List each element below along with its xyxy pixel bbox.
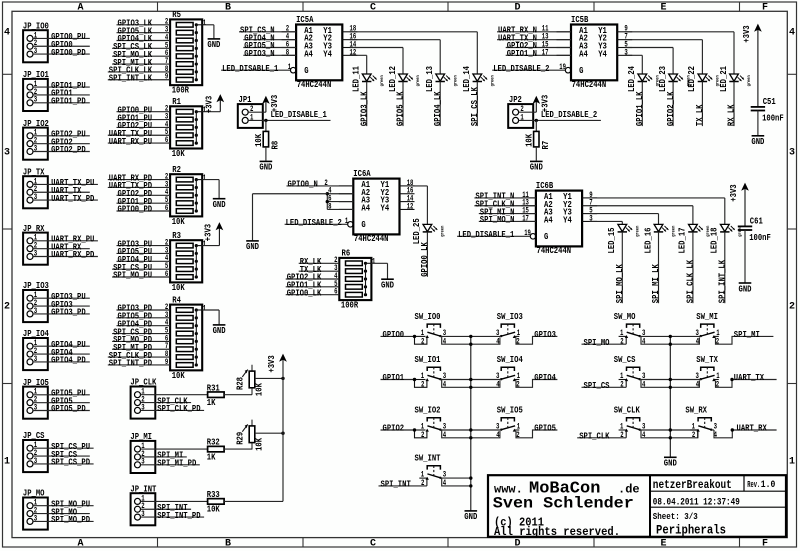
svg-text:LED_DISABLE_2: LED_DISABLE_2: [541, 110, 597, 120]
ground at C61: [739, 283, 752, 294]
wire R3 pin 4: [117, 260, 171, 262]
junction node: [413, 335, 416, 338]
resistor network R3 10K: [170, 231, 206, 293]
wire feed to LED_21: [733, 32, 735, 74]
svg-text:GND: GND: [739, 284, 752, 294]
wire output UART_TX: [715, 379, 719, 381]
+3V3 supply at rail: [267, 354, 286, 372]
switch SW_IO4: [496, 355, 523, 390]
svg-text:SW_IO3: SW_IO3: [497, 312, 523, 322]
svg-text:E: E: [660, 2, 666, 13]
svg-text:GND: GND: [381, 281, 394, 291]
wire JP_IO4 pin 3: [33, 361, 90, 363]
svg-text:10K: 10K: [254, 133, 264, 146]
svg-text:GPIO5_PD: GPIO5_PD: [51, 404, 86, 414]
wire JP_IO5 pin 3: [33, 410, 90, 412]
wire switch pins 3 4 to column: [440, 477, 470, 479]
connector JP_CLK: [130, 378, 156, 419]
svg-text:SW_TX: SW_TX: [696, 355, 718, 365]
wire R4 pin 9: [108, 364, 170, 366]
svg-text:LED_DISABLE_2: LED_DISABLE_2: [286, 218, 342, 228]
svg-text:R28: R28: [235, 377, 245, 390]
buffer IC IC6B 74HC244N: [521, 181, 597, 256]
wire IC5B input UART_RX_N: [497, 31, 571, 33]
wire R6 pin 3: [299, 270, 340, 272]
buffer IC IC5A 74HC244N: [282, 15, 358, 90]
wire cathode of LED_14: [476, 82, 478, 127]
svg-text:9: 9: [165, 73, 169, 82]
svg-text:green: green: [672, 226, 677, 237]
switch SW_MO: [614, 312, 646, 347]
svg-text:SPI_CLK_LK: SPI_CLK_LK: [686, 259, 696, 303]
wire R4 pin 5: [112, 333, 170, 335]
resistor R7 10K: [525, 120, 551, 160]
wire JP_RX pin 1: [33, 240, 98, 242]
svg-text:SPI_MI: SPI_MI: [734, 330, 760, 340]
svg-text:6: 6: [165, 136, 169, 145]
svg-text:GPIO5_LK: GPIO5_LK: [396, 91, 406, 126]
wire IC6B input SPI_MI_N: [479, 213, 536, 215]
svg-text:GPIO0_LK: GPIO0_LK: [287, 288, 322, 298]
junction node: [730, 378, 733, 381]
svg-text:2: 2: [421, 479, 425, 488]
wire IC5A input GPIO4_N: [243, 39, 296, 41]
svg-text:E: E: [660, 539, 666, 550]
ground at R5: [207, 39, 220, 50]
wire JP_IO2 pin 3: [33, 151, 90, 153]
svg-text:19: 19: [559, 63, 566, 72]
wire switch pins 3 4 from column: [670, 379, 700, 381]
LED LED_15 green: [607, 224, 640, 253]
LED LED_18 green: [710, 224, 743, 253]
svg-text:LED_DISABLE_1: LED_DISABLE_1: [222, 64, 279, 74]
LED LED_25 green: [412, 218, 445, 244]
wire JP_IO3 pin 3: [33, 313, 90, 315]
wire JP_CS pin 2: [33, 455, 90, 457]
wire R2 pin 3: [108, 186, 170, 188]
svg-text:GPIO4_LK: GPIO4_LK: [433, 91, 443, 126]
wire cathode of LED_24: [641, 82, 643, 127]
svg-text:10K: 10K: [254, 437, 264, 450]
junction node: [413, 428, 416, 431]
wire R4 pin 8: [108, 356, 170, 358]
wire JP_IO3 pin 2: [33, 305, 90, 307]
+3V3 supply at R3: [203, 223, 222, 246]
svg-text:green: green: [636, 226, 641, 237]
svg-text:LED_DISABLE_2: LED_DISABLE_2: [493, 64, 549, 74]
resistor network R5 100R: [170, 10, 206, 95]
wire R2 pin 5: [117, 202, 171, 204]
svg-text:2: 2: [516, 431, 520, 440]
svg-text:4: 4: [443, 431, 447, 440]
wire R5 pin 1 to ground: [202, 24, 214, 26]
svg-text:1: 1: [4, 457, 10, 468]
svg-text:SW_MI: SW_MI: [696, 312, 718, 322]
svg-text:green: green: [656, 75, 661, 86]
wire switch common column left group: [469, 335, 472, 511]
svg-text:SPI_INT_LK: SPI_INT_LK: [718, 259, 728, 303]
wire input GPIO2: [381, 429, 415, 431]
wire IC5B input UART_TX_N: [497, 39, 571, 41]
svg-text:4: 4: [443, 337, 447, 346]
+3V3 supply at JP2: [533, 95, 550, 112]
junction node: [731, 428, 734, 431]
wire R1 pin 2: [117, 111, 171, 113]
switch SW_CS: [614, 355, 646, 390]
svg-text:green: green: [380, 75, 385, 86]
connector JP_MI: [130, 432, 155, 473]
svg-text:2: 2: [620, 337, 624, 346]
+3V3 supply at C51: [742, 25, 761, 107]
svg-text:D: D: [514, 539, 520, 550]
wire enable LED_DISABLE_1: [457, 235, 530, 237]
svg-text:SPI_CS: SPI_CS: [584, 381, 610, 391]
svg-text:SPI_MI_LK: SPI_MI_LK: [651, 264, 661, 303]
svg-text:2: 2: [789, 302, 795, 313]
svg-text:UART_RX_PU: UART_RX_PU: [109, 137, 152, 147]
wire C51 to ground: [757, 111, 759, 136]
wire R2 pin 2: [108, 179, 170, 181]
svg-text:GPIO2_PD: GPIO2_PD: [51, 145, 86, 155]
svg-text:10K: 10K: [525, 133, 535, 146]
wire JP_CLK pin 3: [141, 409, 205, 411]
svg-text:GPIO2: GPIO2: [383, 424, 405, 434]
wire IC6B input SPI_CLK_N: [474, 205, 536, 207]
svg-text:2: 2: [421, 431, 425, 440]
LED LED_22 green: [687, 66, 720, 92]
wire JP_RX pin 3: [33, 256, 98, 258]
connector JP_IO5: [23, 378, 49, 419]
svg-text:R32: R32: [207, 438, 220, 448]
wire JP_TX pin 3: [33, 199, 98, 201]
wire R4 pin 7: [112, 348, 170, 350]
wire R5 pin 8: [108, 71, 170, 73]
wire output GPIO5: [515, 429, 519, 431]
svg-text:10K: 10K: [207, 505, 220, 515]
wire IC5A Y1 to LED_14: [350, 31, 478, 33]
wire JP_INT pin 1 to R33: [141, 500, 208, 502]
svg-text:GPIO0_N: GPIO0_N: [288, 180, 318, 190]
svg-text:GPIO0: GPIO0: [383, 330, 405, 340]
wire IC5B Y2 to LED_22: [625, 39, 703, 41]
LED LED_12 green: [388, 66, 421, 92]
svg-text:SW_IO4: SW_IO4: [497, 355, 523, 365]
junction node: [264, 119, 267, 122]
switch SW_CLK: [614, 405, 646, 440]
wire JP_CS pin 1: [33, 447, 94, 449]
LED LED_14 green: [462, 66, 495, 92]
svg-text:SPI_INT_PD: SPI_INT_PD: [157, 511, 201, 521]
svg-text:SPI_MO_N: SPI_MO_N: [480, 215, 515, 225]
connector JP_IO4: [23, 329, 49, 370]
wire JP_IO1 pin 2: [33, 94, 90, 96]
connector JP_IO0: [23, 21, 49, 62]
wire R1 pin 1 to +3V3: [202, 111, 220, 113]
wire switch pins 3 4 from column: [471, 335, 501, 337]
wire JP_IO5 pin 2: [33, 402, 90, 404]
svg-text:GPIO0_PD: GPIO0_PD: [118, 205, 153, 215]
svg-text:+3V3: +3V3: [742, 25, 752, 42]
svg-text:74HC244N: 74HC244N: [354, 234, 389, 244]
svg-text:4: 4: [642, 431, 646, 440]
resistor R33 10K: [207, 490, 224, 515]
svg-text:A4: A4: [304, 49, 313, 59]
svg-text:GPIO4_PD: GPIO4_PD: [51, 356, 86, 366]
svg-text:SPI_MO_PD: SPI_MO_PD: [51, 515, 90, 525]
svg-text:GPIO5: GPIO5: [534, 424, 556, 434]
wire JP2 pin 2 to +3V3: [519, 111, 537, 113]
wire R4 pin 4: [117, 325, 171, 327]
svg-text:UART_TX: UART_TX: [734, 373, 765, 383]
svg-text:10K: 10K: [172, 149, 185, 159]
wire switch pins 3 4 to column: [640, 429, 671, 431]
svg-text:SPI_CS_LK: SPI_CS_LK: [470, 87, 480, 126]
wire feed to LED_23: [672, 48, 674, 75]
wire feed to LED_12: [402, 48, 404, 75]
svg-text:SW_INT: SW_INT: [415, 454, 441, 464]
svg-text:Rev.: Rev.: [747, 480, 760, 490]
svg-text:G: G: [361, 220, 365, 230]
ground at switch column right: [664, 457, 677, 468]
svg-text:1: 1: [203, 174, 207, 183]
capacitor C61 100nF: [738, 216, 771, 243]
trimmer R29 10K: [235, 420, 264, 451]
wire cathode of LED_23: [672, 82, 674, 127]
svg-text:C61: C61: [750, 216, 763, 226]
svg-text:+3V3: +3V3: [204, 96, 214, 113]
resistor network R1 10K: [170, 97, 206, 159]
svg-text:4: 4: [696, 380, 700, 389]
wire cathode of LED_18: [724, 232, 726, 303]
wire enable LED_DISABLE_2: [285, 223, 348, 225]
svg-text:1: 1: [250, 113, 254, 122]
svg-text:GND: GND: [464, 512, 477, 522]
wire R3 pin 3: [117, 252, 171, 254]
svg-text:LED_13: LED_13: [425, 66, 435, 92]
wire IC5B Y3 to LED_23: [625, 47, 673, 49]
wire R1 pin 4: [117, 126, 171, 128]
switch SW_IO1: [415, 355, 447, 390]
wire wiper R29 to rail: [255, 432, 283, 434]
LED LED_13 green: [425, 66, 458, 92]
svg-text:A: A: [77, 2, 83, 13]
connector JP_INT: [130, 484, 156, 525]
wire input GPIO0: [381, 335, 415, 337]
ground at R7: [530, 161, 543, 172]
svg-text:SPI_MO_LK: SPI_MO_LK: [615, 264, 625, 303]
svg-text:UART_RX_PD: UART_RX_PD: [51, 250, 95, 260]
svg-text:SW_IO1: SW_IO1: [415, 355, 441, 365]
wire R4 pin 6: [112, 340, 170, 342]
wire JP_IO2 pin 2: [33, 143, 90, 145]
wire input SPI_CLK: [577, 437, 626, 439]
wire JP_IO4 pin 1: [33, 345, 90, 347]
svg-text:GPIO3_LK: GPIO3_LK: [359, 91, 369, 126]
wire R5 pin 6: [112, 55, 170, 57]
svg-text:A: A: [77, 539, 83, 550]
wire IC5A Y2 to LED_13: [350, 39, 440, 41]
svg-text:SW_IO0: SW_IO0: [415, 312, 441, 322]
wire input GPIO1: [381, 379, 415, 381]
wire feed to LED_25: [426, 186, 428, 225]
wire R5 pin 5: [112, 47, 170, 49]
svg-text:Y4: Y4: [598, 49, 607, 59]
wire JP2 pin 1 LED_DISABLE_2: [519, 119, 601, 121]
wire R6 pin 2: [299, 262, 340, 264]
svg-text:17: 17: [542, 48, 549, 57]
junction node: [413, 378, 416, 381]
wire R32 to R29: [224, 448, 252, 450]
svg-text:green: green: [716, 75, 721, 86]
svg-text:74HC244N: 74HC244N: [297, 80, 332, 90]
svg-text:2: 2: [692, 431, 696, 440]
wire switch pins 3 4 from column: [471, 379, 501, 381]
wire JP_IO1 pin 1: [33, 86, 90, 88]
wire enable LED_DISABLE_1: [221, 69, 290, 71]
wire R5 pin 9: [108, 79, 170, 81]
svg-text:100R: 100R: [172, 86, 190, 96]
svg-text:1: 1: [345, 217, 349, 226]
svg-text:Sven Schlender: Sven Schlender: [493, 495, 634, 513]
resistor network R6 100R: [339, 249, 375, 311]
resistor R32 1K: [207, 438, 224, 463]
wire feed to LED_24: [641, 55, 643, 74]
wire JP1 pin 2 to +3V3: [248, 111, 266, 113]
svg-text:R7: R7: [541, 141, 551, 150]
junction node: [281, 432, 284, 435]
svg-text:GPIO3: GPIO3: [534, 330, 556, 340]
svg-text:SPI_CS_PD: SPI_CS_PD: [51, 458, 90, 468]
svg-text:TX_LK: TX_LK: [695, 104, 705, 126]
resistor network R4 10K: [170, 295, 206, 380]
title block: [488, 475, 786, 537]
svg-text:netzerBreakout: netzerBreakout: [653, 478, 732, 492]
wire JP_MI pin 1 to R32: [141, 448, 208, 450]
svg-text:10K: 10K: [172, 217, 185, 227]
svg-text:R29: R29: [235, 432, 245, 445]
svg-text:6: 6: [165, 270, 169, 279]
wire enable LED_DISABLE_2: [492, 69, 565, 71]
svg-text:green: green: [686, 75, 691, 86]
svg-text:10K: 10K: [172, 371, 185, 381]
svg-text:SW_IO5: SW_IO5: [497, 405, 523, 415]
svg-text:1: 1: [789, 457, 795, 468]
wire JP_MO pin 3: [33, 520, 94, 522]
wire feed to LED_16: [658, 214, 660, 225]
svg-text:SPI_CLK: SPI_CLK: [579, 432, 610, 442]
+3V3 supply at JP1: [263, 95, 280, 112]
svg-text:LED_12: LED_12: [388, 66, 398, 92]
svg-text:2: 2: [620, 380, 624, 389]
wire R4 pin 3: [117, 317, 171, 319]
wire cathode of LED_22: [701, 82, 703, 127]
svg-text:SW_CLK: SW_CLK: [614, 405, 640, 415]
wire output GPIO3: [515, 335, 519, 337]
svg-text:SPI_MI_PD: SPI_MI_PD: [157, 459, 196, 469]
svg-text:Y4: Y4: [563, 215, 572, 225]
ground at R6: [381, 279, 394, 290]
LED LED_21 green: [719, 66, 752, 92]
wire cathode of LED_11: [366, 82, 368, 127]
wire IC5A input GPIO3_N: [243, 54, 296, 56]
svg-text:4: 4: [696, 337, 700, 346]
svg-text:10K: 10K: [254, 383, 264, 396]
wire switch pins 3 4 to column: [440, 429, 470, 431]
wire switch pins 3 4 to column: [440, 335, 470, 337]
svg-text:green: green: [416, 75, 421, 86]
svg-text:LED_18: LED_18: [710, 228, 720, 254]
ground at R4: [213, 325, 226, 336]
svg-text:GND: GND: [259, 163, 272, 173]
svg-text:RX_LK: RX_LK: [727, 104, 737, 126]
wire IC6B Y1 to LED_18: [590, 197, 725, 199]
wire JP_INT pin 2: [141, 508, 192, 510]
wire IC5A input GPIO5_N: [243, 47, 296, 49]
wire IC5B Y1 to LED_21: [625, 31, 734, 33]
junction node: [535, 119, 538, 122]
svg-text:GPIO1_LK: GPIO1_LK: [635, 91, 645, 126]
wire R3 pin 2: [117, 245, 171, 247]
svg-text:12: 12: [407, 202, 414, 211]
wire wiper R28 to rail: [255, 377, 283, 379]
svg-text:2: 2: [716, 337, 720, 346]
resistor network R2 10K: [170, 165, 206, 227]
connector JP_TX: [23, 167, 48, 208]
wire JP_TX pin 2: [33, 191, 90, 193]
wire feed to LED_22: [701, 40, 703, 74]
svg-text:1: 1: [288, 63, 292, 72]
switch SW_TX: [696, 355, 720, 390]
svg-text:green: green: [491, 75, 496, 86]
svg-text:B: B: [225, 2, 231, 13]
svg-text:3: 3: [789, 148, 795, 159]
wire column to SW_RX: [670, 429, 698, 431]
wire JP_CLK pin 2: [141, 402, 192, 404]
svg-text:2: 2: [4, 302, 10, 313]
switch SW_IO3: [496, 312, 523, 347]
wire cathode of LED_16: [658, 232, 660, 303]
resistor R8 10K: [254, 120, 280, 160]
svg-text:GPIO4: GPIO4: [534, 373, 556, 383]
buffer IC IC5B 74HC244N: [557, 15, 633, 90]
svg-text:GND: GND: [751, 137, 764, 147]
wire input SPI_MO: [582, 343, 627, 345]
wire R3 pin 1 to +3V3: [202, 245, 219, 247]
+3V3 supply at R1: [204, 95, 223, 113]
svg-text:LED_24: LED_24: [627, 66, 637, 92]
svg-text:A4: A4: [544, 215, 553, 225]
svg-text:green: green: [441, 226, 446, 237]
wire R3 pin 6: [112, 276, 170, 278]
svg-text:Y4: Y4: [323, 49, 332, 59]
wire R5 pin 3: [117, 32, 171, 34]
resistor R31 1K: [207, 383, 224, 408]
svg-text:green: green: [747, 75, 752, 86]
svg-text:Sheet: 3/3: Sheet: 3/3: [653, 511, 698, 522]
svg-text:GPIO0_LK: GPIO0_LK: [420, 242, 430, 277]
svg-text:100nF: 100nF: [749, 233, 771, 243]
wire JP_IO3 pin 1: [33, 297, 90, 299]
ground at C51: [751, 136, 764, 147]
wire JP_MO pin 2: [33, 513, 90, 515]
wire R5 pin 2: [117, 24, 171, 26]
svg-text:4: 4: [642, 337, 646, 346]
wire JP_IO0 pin 1: [33, 37, 90, 39]
trimmer R28 10K: [235, 365, 264, 396]
svg-text:Peripherals: Peripherals: [656, 522, 726, 537]
LED LED_16 green: [643, 224, 676, 253]
LED LED_23 green: [658, 66, 691, 92]
